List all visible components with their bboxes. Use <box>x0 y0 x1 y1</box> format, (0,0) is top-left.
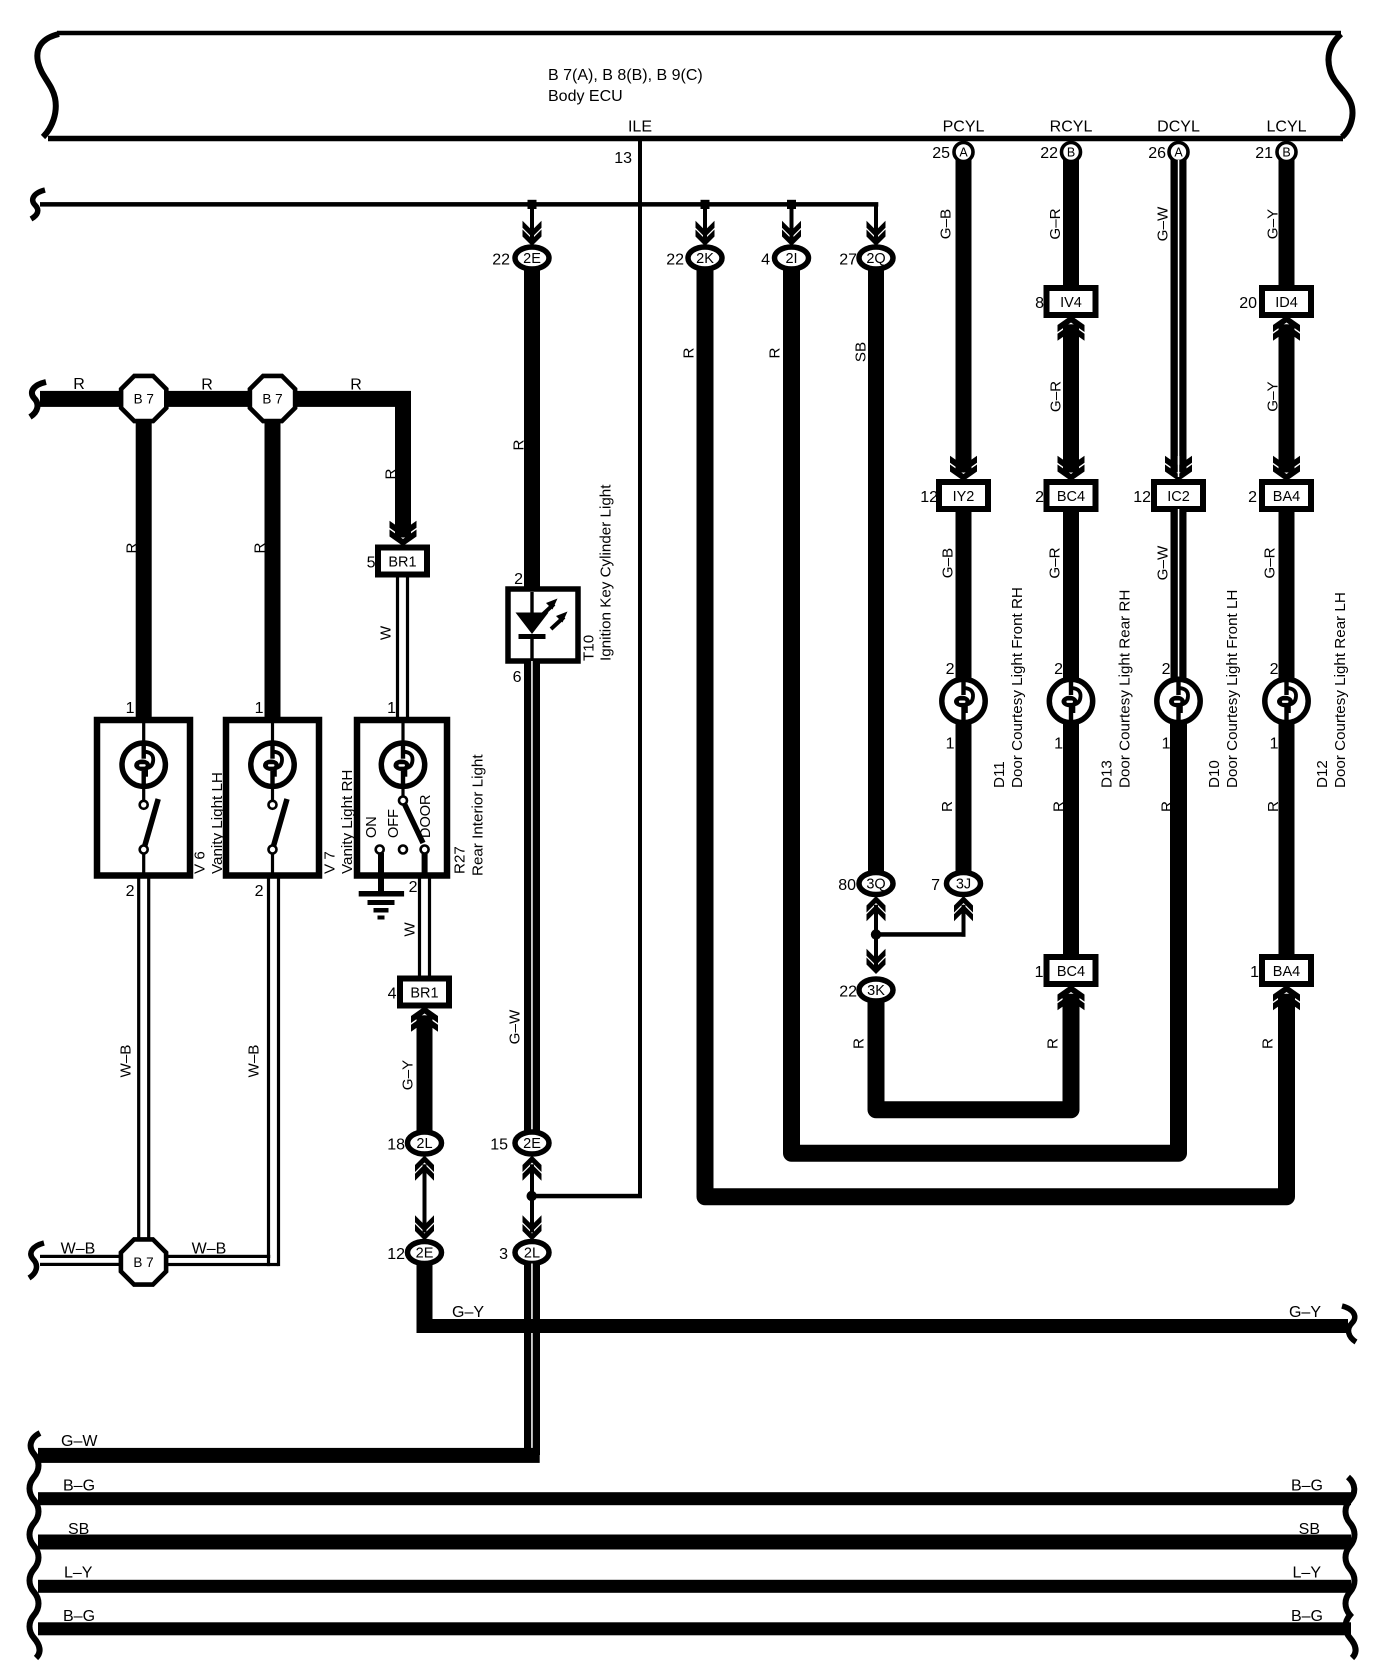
wire L-Y bus <box>38 1580 1351 1593</box>
wire G-B IY2 to D11 <box>956 509 972 679</box>
wire SB 2Q column <box>868 269 884 871</box>
W-B wire left squiggle <box>29 1243 44 1278</box>
svg-text:27: 27 <box>839 252 857 269</box>
bus right wavy edge <box>1346 1477 1356 1658</box>
svg-text:2: 2 <box>946 661 955 678</box>
svg-text:2: 2 <box>255 883 264 900</box>
svg-text:R: R <box>939 801 956 812</box>
arrow into BA4 <box>1273 456 1300 473</box>
wire R 2K to BA4 U-shape <box>705 269 1287 1197</box>
svg-text:3K: 3K <box>867 983 885 999</box>
svg-text:1: 1 <box>1270 736 1279 753</box>
arrow into IC2 <box>1165 456 1192 473</box>
svg-text:SB: SB <box>1299 1521 1320 1538</box>
arrow into 2E <box>523 221 542 238</box>
svg-text:22: 22 <box>1040 145 1058 162</box>
connector 2E pin 12 <box>408 1242 442 1264</box>
ECU pin 26 circle A (DCYL) <box>1169 143 1188 162</box>
svg-text:R: R <box>1159 801 1176 812</box>
svg-text:T10: T10 <box>581 635 598 661</box>
svg-text:2L: 2L <box>416 1136 432 1152</box>
svg-text:5: 5 <box>367 555 376 572</box>
wire stub to 2I <box>790 208 794 240</box>
svg-text:BR1: BR1 <box>388 555 416 571</box>
svg-text:B 7: B 7 <box>262 392 282 407</box>
svg-text:3: 3 <box>499 1246 508 1263</box>
wire B-G bus 2 <box>38 1622 1351 1635</box>
connector BA4 pin 1 <box>1262 957 1311 984</box>
svg-text:BC4: BC4 <box>1057 964 1085 980</box>
svg-text:D12: D12 <box>1314 760 1331 788</box>
wire W-B B7 to V7 corner <box>166 1255 269 1258</box>
svg-text:OFF: OFF <box>386 809 402 838</box>
arrow into BR1(5) <box>390 521 417 538</box>
wire R D12 to BA4(1) <box>1279 723 1295 958</box>
svg-text:26: 26 <box>1148 145 1166 162</box>
svg-text:BA4: BA4 <box>1273 964 1300 980</box>
svg-text:B–G: B–G <box>1291 1478 1323 1495</box>
door courtesy light D12 bulb <box>1265 679 1308 722</box>
arrow into 2Q <box>867 221 886 238</box>
wire G-R IV4 to BC4 <box>1063 324 1079 472</box>
junction dot ILE <box>527 1191 537 1201</box>
wire G-Y ID4 to BA4 <box>1279 324 1295 472</box>
svg-text:R: R <box>201 377 213 394</box>
T10 LED symbol <box>516 613 549 635</box>
junction B7 (V6) <box>121 376 166 421</box>
wire G-Y BR1 to 2L(18) <box>417 1015 433 1131</box>
wire W-B left of B7 <box>40 1255 121 1258</box>
wire G-W IC2 to D10 <box>1171 509 1187 679</box>
wire ILE pin 13 vertical <box>638 141 642 1196</box>
svg-text:G–R: G–R <box>1047 547 1064 578</box>
svg-text:D13: D13 <box>1099 760 1116 788</box>
svg-text:20: 20 <box>1239 295 1257 312</box>
svg-text:Rear Interior Light: Rear Interior Light <box>470 754 487 876</box>
svg-text:8: 8 <box>1035 295 1044 312</box>
svg-text:3J: 3J <box>956 877 971 893</box>
svg-text:1: 1 <box>1035 964 1044 981</box>
wire G-R BA4 to D12 <box>1279 509 1295 679</box>
svg-text:IC2: IC2 <box>1167 489 1190 505</box>
svg-text:V 6: V 6 <box>192 851 209 874</box>
svg-text:B 7: B 7 <box>133 1255 153 1270</box>
arrow into 2L(3) <box>523 1215 542 1232</box>
door courtesy light D13 bulb <box>1049 679 1092 722</box>
svg-text:4: 4 <box>388 986 397 1003</box>
wire 2L(18) to 2E(12) <box>423 1164 427 1232</box>
Body ECU left wavy edge <box>37 34 59 137</box>
svg-text:Door Courtesy Light Rear LH: Door Courtesy Light Rear LH <box>1332 592 1349 788</box>
wire R B7 to V6 <box>136 420 152 722</box>
wire stub to 2Q <box>874 204 878 240</box>
svg-text:DCYL: DCYL <box>1157 119 1200 136</box>
connector 2E pin 22 <box>515 247 549 269</box>
connector 2I pin 4 <box>775 247 809 269</box>
svg-text:G–W: G–W <box>507 1009 524 1044</box>
svg-text:2K: 2K <box>696 251 714 267</box>
connector IC2 pin 12 <box>1154 482 1203 509</box>
arrow into IY2 <box>950 456 977 473</box>
connector IV4 pin 8 <box>1047 288 1096 315</box>
svg-text:D10: D10 <box>1206 760 1223 788</box>
wire G-W bottom horizontal <box>38 1448 540 1463</box>
svg-text:1: 1 <box>1250 964 1259 981</box>
svg-text:Body ECU: Body ECU <box>548 88 623 105</box>
junction B7 (V7) <box>250 376 295 421</box>
wire W R27 to BR1(4) <box>418 876 421 979</box>
wire G-Y horizontal <box>417 1319 1349 1333</box>
svg-text:1: 1 <box>126 700 135 717</box>
svg-text:22: 22 <box>839 984 857 1001</box>
connector 3Q pin 80 <box>859 873 893 895</box>
svg-text:G–Y: G–Y <box>1265 209 1282 239</box>
wire R 2E to T10 <box>524 269 540 591</box>
door courtesy light D10 bulb <box>1157 679 1200 722</box>
connector ID4 pin 20 <box>1262 288 1311 315</box>
wire 3J corner to junction <box>962 905 966 937</box>
wire R D11 to 3J <box>956 723 972 873</box>
bus left wavy edge <box>30 1433 41 1658</box>
wire ILE horizontal to junction <box>534 1194 642 1199</box>
svg-text:RCYL: RCYL <box>1050 119 1093 136</box>
svg-text:G–W: G–W <box>1155 206 1172 241</box>
arrow into BA4(1) <box>1273 985 1300 1002</box>
svg-text:B 7(A), B 8(B), B 9(C): B 7(A), B 8(B), B 9(C) <box>548 67 703 84</box>
svg-text:G–Y: G–Y <box>1289 1304 1321 1321</box>
connector BR1 pin 4 <box>400 979 449 1006</box>
svg-text:2: 2 <box>1270 661 1279 678</box>
svg-text:BR1: BR1 <box>410 986 438 1002</box>
svg-text:D11: D11 <box>991 761 1008 788</box>
V6 switch <box>142 786 145 801</box>
svg-text:PCYL: PCYL <box>943 119 985 136</box>
junction B7 ground octagon <box>121 1239 166 1284</box>
svg-text:R27: R27 <box>452 846 469 874</box>
svg-text:B–G: B–G <box>63 1478 95 1495</box>
svg-text:W: W <box>402 922 419 937</box>
wire SB bus <box>38 1535 1351 1550</box>
svg-text:G–W: G–W <box>1155 545 1172 580</box>
svg-text:22: 22 <box>666 252 684 269</box>
svg-text:4: 4 <box>761 252 770 269</box>
svg-text:25: 25 <box>932 145 950 162</box>
svg-text:2: 2 <box>126 883 135 900</box>
wire B-G bus 1 <box>38 1492 1351 1505</box>
svg-text:B 7: B 7 <box>134 392 154 407</box>
svg-text:G–Y: G–Y <box>400 1060 417 1090</box>
svg-text:SB: SB <box>68 1521 89 1538</box>
svg-text:1: 1 <box>1162 736 1171 753</box>
svg-text:Vanity Light RH: Vanity Light RH <box>339 770 356 874</box>
wire G-W DCYL <box>1171 160 1187 473</box>
svg-text:W–B: W–B <box>61 1241 96 1258</box>
arrow out of IV4 <box>1058 316 1085 333</box>
connector 2L pin 3 <box>515 1242 549 1264</box>
arrow out of BR1(4) <box>411 1007 438 1024</box>
ECU pin 21 circle B (LCYL) <box>1277 143 1296 162</box>
svg-text:DOOR: DOOR <box>418 795 434 839</box>
svg-text:2: 2 <box>1054 661 1063 678</box>
svg-text:IY2: IY2 <box>953 489 975 505</box>
wire junction to 3K <box>874 935 878 968</box>
connector BC4 pin 1 <box>1047 957 1096 984</box>
feed bus left squiggle <box>31 190 45 219</box>
svg-text:L–Y: L–Y <box>1293 1565 1322 1582</box>
wire G-Y LCYL to ID4 <box>1279 160 1295 290</box>
vanity light LH V6 box <box>97 720 190 876</box>
junction dot 3Q-3J-3K <box>871 929 881 939</box>
svg-text:1: 1 <box>255 700 264 717</box>
ECU pin 25 circle A (PCYL) <box>954 143 973 162</box>
svg-text:ILE: ILE <box>628 119 652 136</box>
R27 switch <box>401 786 404 797</box>
arrow into 3J <box>954 896 973 913</box>
connector 2K pin 22 <box>688 247 722 269</box>
wire W-B V7 down <box>267 876 270 1267</box>
V6 bulb <box>122 743 165 786</box>
connector 3K pin 22 <box>859 979 893 1001</box>
V7 bulb <box>251 743 294 786</box>
R27 bulb <box>381 743 424 786</box>
svg-text:7: 7 <box>931 877 940 894</box>
svg-text:12: 12 <box>920 489 938 506</box>
svg-text:R: R <box>350 377 362 394</box>
svg-text:B: B <box>1067 146 1075 160</box>
wire stub to 2E <box>530 208 534 240</box>
svg-text:G–Y: G–Y <box>1265 381 1282 411</box>
svg-text:R: R <box>511 439 528 450</box>
svg-text:R: R <box>1260 1038 1277 1049</box>
arrow into 2L(18) <box>415 1156 434 1173</box>
tap junction at 2K <box>701 200 710 209</box>
svg-text:2: 2 <box>1035 489 1044 506</box>
wire R D13 to BC4(1) <box>1063 723 1079 958</box>
ECU pin 22 circle B (RCYL) <box>1062 143 1081 162</box>
door courtesy light D11 bulb <box>942 679 985 722</box>
Body ECU connector box outline <box>57 31 1341 36</box>
svg-text:3Q: 3Q <box>866 877 885 893</box>
svg-text:2: 2 <box>514 571 523 588</box>
svg-text:G–Y: G–Y <box>452 1304 484 1321</box>
arrow into 2E(12) <box>415 1215 434 1232</box>
arrow into 2K <box>696 221 715 238</box>
wire 3Q to junction <box>874 905 878 935</box>
svg-text:SB: SB <box>853 342 870 362</box>
connector BA4 pin 2 <box>1262 482 1311 509</box>
svg-text:1: 1 <box>946 736 955 753</box>
wire R corner to BR1 <box>395 398 411 538</box>
svg-text:2: 2 <box>1248 489 1257 506</box>
svg-text:G–R: G–R <box>1047 208 1064 239</box>
svg-text:B: B <box>1282 146 1290 160</box>
V7 switch <box>271 786 274 801</box>
svg-text:W–B: W–B <box>246 1045 263 1078</box>
svg-text:R: R <box>767 347 784 358</box>
svg-text:22: 22 <box>492 252 510 269</box>
wire R 2I to D10 U-shape <box>792 269 1179 1153</box>
connector IY2 pin 12 <box>939 482 988 509</box>
connector 2L pin 18 <box>408 1132 442 1154</box>
svg-text:80: 80 <box>838 877 856 894</box>
wire G-W T10 to 2E(15) <box>524 661 540 1131</box>
svg-text:L–Y: L–Y <box>64 1565 93 1582</box>
svg-text:15: 15 <box>490 1137 508 1154</box>
svg-text:2E: 2E <box>416 1246 434 1262</box>
svg-text:G–B: G–B <box>940 548 957 578</box>
wire interior-light feed bus <box>40 202 878 207</box>
arrow into 3K <box>867 949 886 966</box>
svg-text:W–B: W–B <box>118 1045 135 1078</box>
svg-text:R: R <box>681 347 698 358</box>
wire G-B PCYL <box>956 160 972 473</box>
svg-text:BC4: BC4 <box>1057 489 1085 505</box>
svg-text:12: 12 <box>1133 489 1151 506</box>
svg-text:2I: 2I <box>785 251 797 267</box>
vanity light RH V7 box <box>226 720 319 876</box>
wire R main horizontal <box>40 391 411 407</box>
svg-text:V 7: V 7 <box>322 851 339 874</box>
svg-text:2Q: 2Q <box>866 251 885 267</box>
G-Y right squiggle <box>1342 1306 1356 1342</box>
wire G-R RCYL to IV4 <box>1063 160 1079 290</box>
wire W BR1 to R27 <box>396 575 399 721</box>
svg-text:ID4: ID4 <box>1275 295 1298 311</box>
svg-text:G–R: G–R <box>1262 547 1279 578</box>
svg-text:2L: 2L <box>524 1246 540 1262</box>
svg-text:LCYL: LCYL <box>1266 119 1306 136</box>
svg-text:A: A <box>1174 146 1183 160</box>
arrow into 2E(15) <box>523 1156 542 1173</box>
svg-text:R: R <box>1051 801 1068 812</box>
svg-text:G–B: G–B <box>938 209 955 239</box>
wire stub to 2K <box>703 208 707 240</box>
svg-text:ON: ON <box>364 816 380 838</box>
svg-text:12: 12 <box>387 1246 405 1263</box>
svg-text:R: R <box>252 542 269 553</box>
tap junction at 2I <box>787 200 796 209</box>
connector BC4 pin 2 <box>1047 482 1096 509</box>
svg-text:IV4: IV4 <box>1060 295 1082 311</box>
arrow into 2I <box>782 221 801 238</box>
wire G-R BC4 to D13 <box>1063 509 1079 679</box>
connector BR1 pin 5 <box>378 548 427 575</box>
svg-text:A: A <box>959 146 968 160</box>
svg-text:2: 2 <box>409 879 418 896</box>
wire G-W 2L(3) to bus <box>524 1264 540 1456</box>
svg-text:R: R <box>124 542 141 553</box>
svg-text:2: 2 <box>1162 661 1171 678</box>
svg-text:W–B: W–B <box>192 1241 227 1258</box>
svg-text:Door Courtesy Light Front RH: Door Courtesy Light Front RH <box>1009 587 1026 788</box>
arrow into BC4 <box>1058 456 1085 473</box>
R27 DOOR wire to pin2 <box>422 853 428 876</box>
svg-text:BA4: BA4 <box>1273 489 1300 505</box>
rear interior light R27 box <box>357 720 447 876</box>
svg-text:2E: 2E <box>523 1136 541 1152</box>
T10 pin 2 lead <box>530 592 533 613</box>
wire R 3K to BC4 U-shape <box>876 994 1071 1110</box>
svg-text:Door Courtesy Light Rear RH: Door Courtesy Light Rear RH <box>1117 590 1134 788</box>
svg-text:R: R <box>383 468 400 479</box>
Body ECU right wavy edge <box>1328 34 1352 137</box>
R27 ON wire to ground <box>378 853 384 893</box>
svg-text:Ignition Key Cylinder Light: Ignition Key Cylinder Light <box>598 484 615 661</box>
svg-text:R: R <box>1265 801 1282 812</box>
wire W-B V6 to B7 <box>137 876 140 1242</box>
svg-text:G–W: G–W <box>61 1433 98 1450</box>
svg-text:G–R: G–R <box>1048 381 1065 412</box>
svg-text:1: 1 <box>1054 736 1063 753</box>
wire 2E(15) to 2L(3) <box>530 1164 534 1232</box>
svg-text:B–G: B–G <box>1291 1608 1323 1625</box>
svg-text:21: 21 <box>1255 145 1273 162</box>
svg-text:R: R <box>73 376 85 393</box>
svg-text:13: 13 <box>614 150 632 167</box>
connector 2Q pin 27 <box>859 247 893 269</box>
svg-text:6: 6 <box>513 669 522 686</box>
svg-text:1: 1 <box>387 700 396 717</box>
svg-text:W: W <box>378 625 395 640</box>
arrow into BC4(1) <box>1058 985 1085 1002</box>
arrow out of ID4 <box>1273 316 1300 333</box>
ground symbol <box>359 891 404 897</box>
connector 3J pin 7 <box>947 873 981 895</box>
wire G-Y 2E(12) down to corner <box>417 1264 433 1334</box>
connector 2E pin 15 <box>515 1132 549 1154</box>
ignition key cylinder light T10 box <box>508 589 578 661</box>
svg-text:R: R <box>1045 1038 1062 1049</box>
svg-text:B–G: B–G <box>63 1608 95 1625</box>
arrow into 3Q <box>867 896 886 913</box>
tap junction at 2E <box>528 200 537 209</box>
R wire left squiggle <box>30 382 46 417</box>
svg-text:2E: 2E <box>523 251 541 267</box>
svg-text:Door Courtesy Light Front LH: Door Courtesy Light Front LH <box>1224 590 1241 788</box>
wire R B7 to V7 <box>265 420 281 722</box>
svg-text:R: R <box>851 1038 868 1049</box>
svg-text:18: 18 <box>387 1137 405 1154</box>
